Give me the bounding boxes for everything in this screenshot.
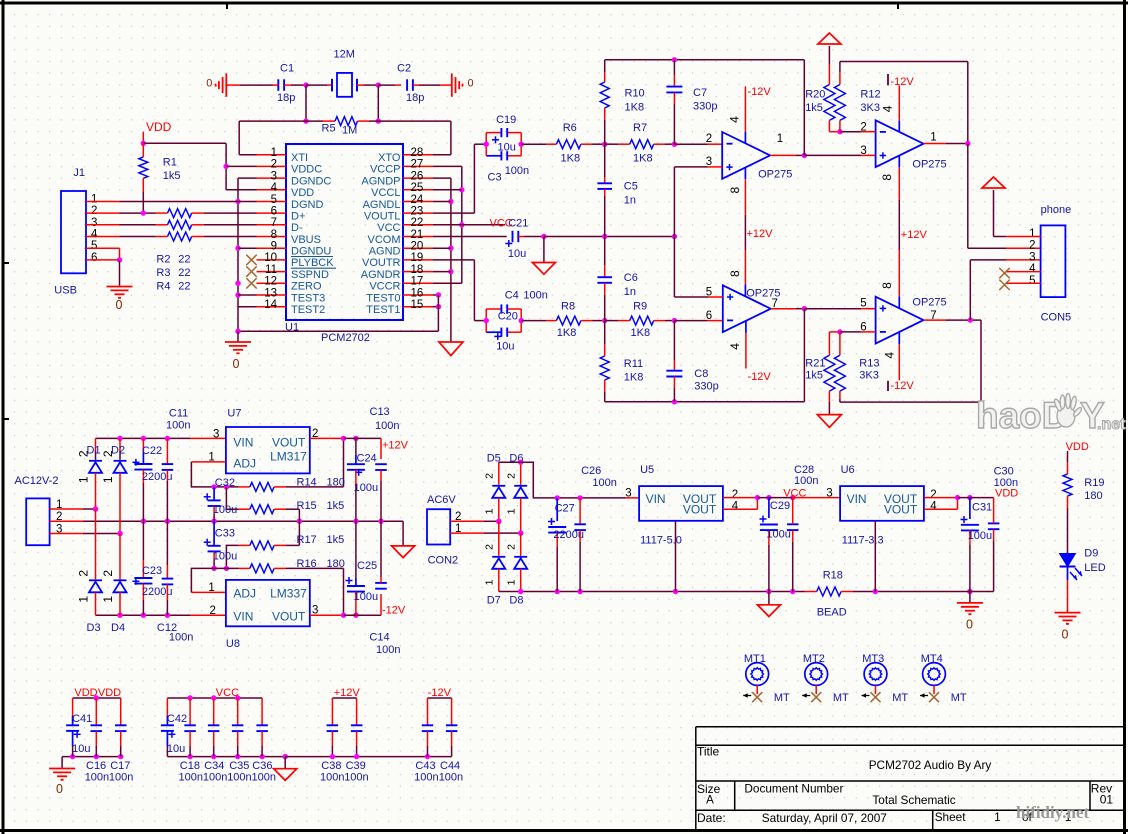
svg-text:2: 2	[91, 205, 97, 217]
svg-text:100n: 100n	[252, 772, 276, 784]
svg-text:1k5: 1k5	[805, 102, 823, 114]
svg-text:1: 1	[91, 194, 97, 206]
svg-text:100u: 100u	[968, 530, 992, 542]
svg-text:C38: C38	[321, 760, 341, 772]
svg-text:100n: 100n	[994, 477, 1018, 489]
svg-text:AC6V: AC6V	[427, 494, 456, 506]
svg-text:100n: 100n	[592, 477, 616, 489]
svg-text:+12V: +12V	[334, 687, 361, 699]
svg-text:VDD: VDD	[995, 488, 1018, 500]
svg-text:4: 4	[930, 500, 937, 512]
svg-text:3: 3	[1029, 251, 1035, 263]
svg-text:VDD: VDD	[146, 120, 172, 134]
svg-text:1117-3.3: 1117-3.3	[842, 535, 884, 547]
svg-text:2: 2	[77, 570, 91, 577]
svg-text:4: 4	[728, 116, 742, 123]
svg-text:D1: D1	[87, 444, 101, 456]
svg-text:22: 22	[411, 217, 424, 229]
svg-text:5: 5	[860, 298, 866, 310]
svg-text:C17: C17	[110, 760, 130, 772]
svg-text:180: 180	[1084, 490, 1102, 502]
svg-text:10: 10	[264, 252, 277, 264]
svg-text:4: 4	[732, 500, 739, 512]
svg-text:VCCL: VCCL	[371, 187, 400, 199]
svg-text:4: 4	[271, 182, 278, 194]
svg-text:MT: MT	[892, 692, 908, 704]
svg-text:C7: C7	[693, 87, 707, 99]
svg-text:OP275: OP275	[912, 296, 946, 308]
svg-text:D2: D2	[111, 444, 125, 456]
svg-text:10u: 10u	[508, 248, 526, 260]
svg-text:C8: C8	[694, 368, 708, 380]
svg-text:LED: LED	[1084, 562, 1105, 574]
svg-text:VDDC: VDDC	[291, 164, 322, 176]
svg-text:Document Number: Document Number	[744, 782, 843, 796]
svg-text:R8: R8	[561, 301, 575, 313]
svg-text:ZERO: ZERO	[291, 281, 322, 293]
svg-text:VDD: VDD	[291, 187, 314, 199]
svg-text:100n: 100n	[794, 475, 818, 487]
svg-text:R21: R21	[805, 358, 825, 370]
svg-text:C25: C25	[357, 560, 377, 572]
svg-text:1k5: 1k5	[327, 534, 345, 546]
svg-text:R12: R12	[860, 88, 880, 100]
svg-text:3K3: 3K3	[859, 370, 879, 382]
svg-text:VOUTR: VOUTR	[362, 257, 401, 269]
svg-text:10u: 10u	[72, 743, 90, 755]
svg-text:3: 3	[271, 170, 277, 182]
svg-text:8: 8	[880, 282, 894, 289]
svg-text:R3: R3	[156, 267, 170, 279]
svg-text:2: 2	[930, 489, 936, 501]
svg-text:R17: R17	[297, 534, 317, 546]
svg-text:1: 1	[77, 596, 91, 603]
svg-text:C19: C19	[496, 114, 516, 126]
svg-text:C43: C43	[415, 760, 435, 772]
svg-text:TEST1: TEST1	[366, 304, 400, 316]
svg-text:TEST3: TEST3	[291, 292, 325, 304]
svg-text:VCC: VCC	[377, 222, 400, 234]
svg-text:phone: phone	[1041, 204, 1072, 216]
svg-text:100u: 100u	[354, 591, 378, 603]
svg-text:AGNDR: AGNDR	[361, 269, 401, 281]
svg-text:C28: C28	[794, 464, 814, 476]
svg-text:100n: 100n	[169, 632, 193, 644]
svg-text:OP275: OP275	[758, 168, 792, 180]
svg-text:21: 21	[411, 229, 424, 241]
svg-text:19: 19	[411, 252, 424, 264]
svg-text:VIN: VIN	[646, 492, 666, 506]
svg-text:8: 8	[728, 187, 742, 194]
svg-text:C24: C24	[357, 453, 377, 465]
svg-text:8: 8	[271, 229, 277, 241]
svg-text:3: 3	[213, 428, 219, 440]
svg-text:MT: MT	[774, 692, 790, 704]
svg-text:4: 4	[883, 352, 897, 359]
svg-text:VOUTL: VOUTL	[364, 210, 401, 222]
svg-text:C14: C14	[369, 631, 389, 643]
svg-text:8: 8	[880, 174, 894, 181]
svg-text:18p: 18p	[277, 92, 295, 104]
svg-text:22: 22	[178, 267, 190, 279]
svg-text:OP275: OP275	[912, 159, 946, 171]
svg-text:C35: C35	[229, 760, 249, 772]
svg-text:1: 1	[483, 508, 495, 514]
svg-text:2: 2	[505, 544, 517, 550]
svg-text:R6: R6	[563, 122, 577, 134]
svg-text:100u: 100u	[213, 551, 237, 563]
svg-text:100n: 100n	[179, 772, 203, 784]
svg-text:R19: R19	[1084, 477, 1104, 489]
svg-text:3: 3	[625, 488, 631, 500]
svg-text:2: 2	[706, 133, 712, 145]
svg-text:1: 1	[271, 147, 277, 159]
svg-text:C44: C44	[440, 760, 460, 772]
svg-text:C11: C11	[169, 408, 188, 420]
svg-text:0: 0	[233, 357, 240, 371]
svg-text:R2: R2	[156, 254, 170, 266]
svg-text:4: 4	[1029, 263, 1036, 275]
svg-text:1: 1	[505, 508, 517, 514]
svg-text:C41: C41	[72, 713, 92, 725]
svg-text:hifidiy.net: hifidiy.net	[1016, 803, 1090, 822]
svg-text:LM317: LM317	[270, 450, 307, 464]
svg-text:-12V: -12V	[748, 371, 772, 383]
svg-text:C26: C26	[581, 465, 601, 477]
svg-text:BEAD: BEAD	[817, 606, 847, 618]
svg-text:C13: C13	[370, 406, 390, 418]
svg-text:100n: 100n	[414, 772, 438, 784]
svg-text:R14: R14	[297, 477, 317, 489]
svg-text:100u: 100u	[354, 482, 378, 494]
svg-text:C20: C20	[498, 311, 518, 323]
svg-text:16: 16	[411, 287, 424, 299]
svg-text:D8: D8	[509, 595, 523, 607]
svg-text:2: 2	[101, 570, 115, 577]
svg-text:100n: 100n	[320, 772, 344, 784]
svg-text:0: 0	[966, 618, 973, 632]
svg-text:1: 1	[208, 582, 214, 594]
svg-text:11: 11	[265, 264, 277, 276]
svg-text:100n: 100n	[227, 772, 251, 784]
svg-text:0: 0	[206, 78, 212, 90]
svg-text:100n: 100n	[505, 165, 529, 177]
svg-text:VIN: VIN	[847, 492, 867, 506]
svg-text:LM337: LM337	[270, 587, 307, 601]
svg-text:TEST2: TEST2	[291, 304, 325, 316]
svg-text:C6: C6	[624, 272, 638, 284]
svg-text:J1: J1	[73, 167, 85, 179]
svg-text:2: 2	[505, 473, 517, 479]
svg-text:TEST0: TEST0	[366, 292, 400, 304]
svg-text:C2: C2	[397, 63, 411, 75]
svg-text:DGNDC: DGNDC	[291, 175, 331, 187]
svg-text:1K8: 1K8	[624, 371, 644, 383]
svg-text:R9: R9	[633, 301, 647, 313]
svg-text:5: 5	[1029, 275, 1035, 287]
svg-text:SSPND: SSPND	[291, 269, 329, 281]
svg-text:10u: 10u	[496, 341, 514, 353]
svg-text:6: 6	[706, 310, 712, 322]
svg-text:1: 1	[930, 132, 936, 144]
svg-text:D5: D5	[487, 452, 501, 464]
svg-text:6: 6	[271, 205, 277, 217]
svg-text:VOUT: VOUT	[884, 503, 918, 517]
svg-text:+12V: +12V	[382, 440, 409, 452]
svg-text:1: 1	[994, 810, 1001, 824]
svg-text:1: 1	[1029, 228, 1035, 240]
svg-text:330p: 330p	[694, 381, 718, 393]
svg-text:C21: C21	[508, 217, 528, 229]
svg-text:XTO: XTO	[378, 152, 401, 164]
svg-text:3: 3	[826, 488, 832, 500]
svg-text:VCCR: VCCR	[369, 281, 400, 293]
svg-text:C16: C16	[86, 760, 106, 772]
svg-text:R7: R7	[633, 122, 647, 134]
svg-text:D3: D3	[87, 622, 101, 634]
svg-text:VBUS: VBUS	[291, 234, 321, 246]
svg-text:C5: C5	[624, 180, 638, 192]
svg-text:17: 17	[411, 276, 424, 288]
svg-text:3: 3	[91, 217, 97, 229]
svg-text:330p: 330p	[693, 101, 717, 113]
svg-text:-12V: -12V	[891, 380, 915, 392]
svg-text:1M: 1M	[342, 125, 357, 137]
svg-text:100n: 100n	[439, 772, 463, 784]
svg-text:100n: 100n	[85, 772, 109, 784]
svg-text:2: 2	[732, 489, 738, 501]
svg-text:Title: Title	[697, 745, 720, 759]
svg-text:C23: C23	[142, 565, 162, 577]
svg-text:AGND: AGND	[369, 246, 401, 258]
svg-text:VOUT: VOUT	[272, 436, 306, 450]
svg-text:0: 0	[116, 298, 123, 312]
svg-text:0: 0	[1062, 628, 1069, 642]
svg-text:2: 2	[483, 473, 495, 479]
svg-text:4: 4	[880, 105, 894, 112]
svg-text:XTI: XTI	[291, 152, 308, 164]
svg-text:4: 4	[91, 229, 98, 241]
svg-text:0: 0	[56, 782, 63, 796]
svg-text:100n: 100n	[376, 644, 400, 656]
svg-text:R1: R1	[163, 156, 177, 168]
svg-text:1: 1	[101, 596, 115, 603]
svg-text:180: 180	[327, 477, 345, 489]
svg-text:6: 6	[91, 252, 97, 264]
svg-text:MT: MT	[833, 692, 849, 704]
svg-text:8: 8	[728, 270, 742, 277]
svg-text:A: A	[706, 794, 714, 806]
svg-text:1K8: 1K8	[625, 102, 645, 114]
svg-text:C30: C30	[994, 466, 1014, 478]
svg-text:C3: C3	[488, 172, 502, 184]
svg-text:MT: MT	[951, 692, 967, 704]
svg-text:C27: C27	[555, 503, 575, 515]
svg-text:C33: C33	[215, 527, 235, 539]
svg-text:3: 3	[860, 145, 866, 157]
svg-text:22: 22	[178, 254, 190, 266]
svg-text:15: 15	[411, 299, 424, 311]
svg-text:1: 1	[483, 579, 495, 585]
svg-text:100u: 100u	[213, 504, 237, 516]
svg-text:C4: C4	[505, 290, 519, 302]
svg-text:VIN: VIN	[233, 610, 253, 624]
svg-text:100n: 100n	[523, 290, 547, 302]
svg-text:R5: R5	[322, 123, 336, 135]
svg-text:12M: 12M	[334, 49, 355, 61]
svg-text:23: 23	[411, 205, 424, 217]
svg-text:C18: C18	[180, 760, 200, 772]
svg-text:C32: C32	[215, 477, 235, 489]
svg-text:U5: U5	[640, 464, 654, 476]
svg-text:C42: C42	[167, 713, 187, 725]
svg-text:Total Schematic: Total Schematic	[872, 793, 955, 807]
svg-text:AC12V-2: AC12V-2	[15, 475, 59, 487]
svg-text:R15: R15	[297, 500, 317, 512]
svg-text:-12V: -12V	[748, 86, 772, 98]
svg-text:1k5: 1k5	[163, 170, 181, 182]
svg-text:USB: USB	[54, 285, 77, 297]
svg-text:28: 28	[411, 147, 424, 159]
svg-text:10u: 10u	[167, 743, 185, 755]
svg-text:C1: C1	[280, 63, 294, 75]
svg-text:100n: 100n	[166, 420, 190, 432]
svg-text:1: 1	[101, 476, 115, 483]
svg-text:C36: C36	[252, 760, 272, 772]
svg-text:25: 25	[411, 182, 424, 194]
svg-text:VDD: VDD	[1066, 441, 1089, 453]
svg-text:ADJ: ADJ	[233, 587, 256, 601]
svg-text:1: 1	[505, 579, 517, 585]
svg-text:C22: C22	[142, 445, 162, 457]
svg-text:-12V: -12V	[891, 76, 915, 88]
svg-text:Sheet: Sheet	[935, 810, 967, 824]
svg-text:1K8: 1K8	[633, 152, 653, 164]
svg-text:20: 20	[411, 241, 424, 253]
svg-text:PCM2702 Audio By Ary: PCM2702 Audio By Ary	[869, 758, 992, 772]
svg-text:2: 2	[271, 159, 277, 171]
svg-text:14: 14	[264, 299, 277, 311]
svg-text:U7: U7	[227, 408, 241, 420]
svg-text:C31: C31	[972, 502, 992, 514]
svg-text:1K8: 1K8	[561, 152, 581, 164]
svg-text:1k5: 1k5	[327, 500, 345, 512]
svg-text:VIN: VIN	[233, 436, 253, 450]
svg-text:1k5: 1k5	[805, 370, 823, 382]
svg-text:CON5: CON5	[1041, 312, 1072, 324]
svg-text:13: 13	[264, 287, 277, 299]
svg-text:3K3: 3K3	[860, 102, 880, 114]
svg-text:2: 2	[1029, 240, 1035, 252]
svg-text:-12V: -12V	[382, 605, 406, 617]
svg-text:100n: 100n	[375, 420, 399, 432]
svg-text:1n: 1n	[624, 286, 636, 298]
svg-text:VOUT: VOUT	[272, 610, 306, 624]
svg-text:AGNDL: AGNDL	[363, 199, 401, 211]
svg-text:7: 7	[271, 217, 277, 229]
svg-text:R10: R10	[625, 88, 645, 100]
svg-text:26: 26	[411, 170, 424, 182]
svg-text:D4: D4	[111, 622, 125, 634]
svg-text:VCCP: VCCP	[370, 164, 401, 176]
svg-text:01: 01	[1100, 792, 1114, 806]
svg-text:180: 180	[327, 558, 345, 570]
svg-text:5: 5	[91, 240, 97, 252]
svg-text:D-: D-	[291, 222, 303, 234]
svg-text:+12V: +12V	[747, 228, 774, 240]
svg-text:1n: 1n	[624, 195, 636, 207]
svg-text:R13: R13	[859, 358, 879, 370]
svg-text:R20: R20	[805, 88, 825, 100]
svg-text:22: 22	[178, 281, 190, 293]
svg-text:C34: C34	[204, 760, 224, 772]
svg-text:U6: U6	[841, 464, 855, 476]
svg-text:ADJ: ADJ	[233, 457, 256, 471]
svg-text:24: 24	[411, 194, 424, 206]
svg-text:VDD: VDD	[98, 687, 121, 699]
svg-text:Date:: Date:	[697, 811, 726, 825]
svg-text:+12V: +12V	[901, 229, 928, 241]
svg-text:10u: 10u	[498, 141, 516, 153]
svg-text:0: 0	[468, 78, 474, 90]
svg-text:Saturday, April 07, 2007: Saturday, April 07, 2007	[762, 811, 887, 825]
svg-text:CON2: CON2	[428, 554, 459, 566]
svg-text:R18: R18	[823, 569, 843, 581]
svg-text:1K8: 1K8	[631, 327, 651, 339]
svg-text:R16: R16	[297, 558, 317, 570]
svg-text:PCM2702: PCM2702	[321, 332, 370, 344]
svg-text:C29: C29	[770, 500, 790, 512]
svg-text:VOUT: VOUT	[683, 503, 717, 517]
svg-text:9: 9	[271, 241, 277, 253]
svg-text:PLYBCK: PLYBCK	[291, 257, 334, 269]
svg-text:DGND: DGND	[291, 199, 323, 211]
svg-text:18: 18	[411, 264, 424, 276]
svg-text:4: 4	[728, 343, 742, 350]
svg-text:R11: R11	[624, 358, 643, 370]
svg-text:D9: D9	[1084, 548, 1098, 560]
svg-text:100n: 100n	[109, 772, 133, 784]
svg-text:12: 12	[264, 276, 277, 288]
svg-text:R4: R4	[156, 281, 170, 293]
svg-text:U8: U8	[226, 638, 240, 650]
svg-text:DGNDU: DGNDU	[291, 246, 331, 258]
svg-text:2: 2	[210, 605, 216, 617]
svg-text:100n: 100n	[203, 772, 227, 784]
svg-text:2: 2	[483, 544, 495, 550]
svg-text:-12V: -12V	[428, 687, 452, 699]
svg-text:27: 27	[411, 159, 424, 171]
svg-text:AGNDP: AGNDP	[361, 175, 400, 187]
svg-text:.net: .net	[1097, 416, 1126, 433]
svg-text:VCOM: VCOM	[368, 234, 401, 246]
svg-text:18p: 18p	[406, 92, 424, 104]
svg-text:1: 1	[77, 476, 91, 483]
svg-text:5: 5	[271, 194, 277, 206]
svg-text:1K8: 1K8	[557, 327, 577, 339]
svg-text:1: 1	[777, 133, 783, 145]
svg-text:D+: D+	[291, 210, 305, 222]
svg-text:D7: D7	[487, 595, 501, 607]
svg-text:100n: 100n	[344, 772, 368, 784]
svg-text:C39: C39	[346, 760, 366, 772]
